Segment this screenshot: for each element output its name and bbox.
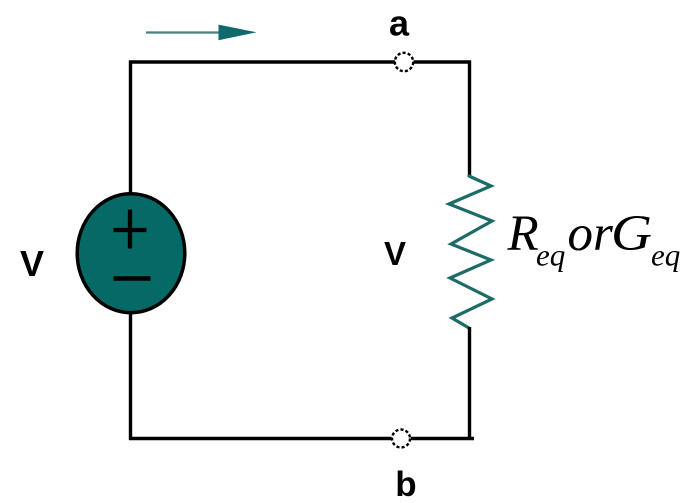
node b terminal circle: [392, 430, 410, 448]
current arrow: [146, 25, 257, 41]
voltage source plus sign: [114, 210, 147, 249]
wire bottom-left segment: [129, 437, 392, 440]
wire left vertical: [129, 61, 132, 441]
svg-text:V: V: [20, 243, 44, 284]
svg-text:a: a: [389, 3, 410, 44]
wire right vertical lower: [468, 327, 471, 440]
voltage source minus sign: [114, 276, 151, 281]
wire top-left segment: [129, 60, 395, 63]
svg-text:V: V: [384, 235, 406, 272]
wire bottom-right segment: [411, 437, 474, 440]
resistor Req zigzag: [449, 176, 492, 328]
wire top-right segment: [414, 60, 472, 63]
svg-text:b: b: [395, 465, 416, 503]
node a terminal circle: [395, 53, 413, 71]
voltage source V1 body: [77, 194, 185, 313]
wire right vertical upper: [468, 61, 471, 178]
